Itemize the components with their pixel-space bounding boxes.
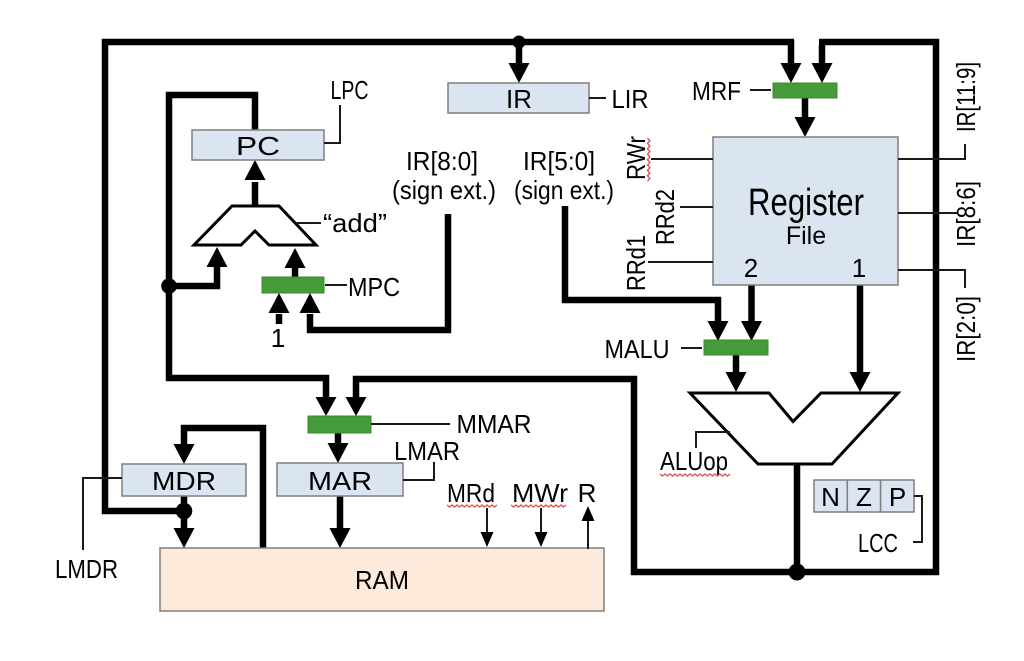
svg-text:RAM: RAM <box>355 565 409 595</box>
node: junction MDR output and left bus <box>176 503 193 520</box>
svg-text:R: R <box>578 478 597 508</box>
svg-text:IR: IR <box>506 84 532 114</box>
wire: MRF right input from right bus (arrow) <box>812 45 833 83</box>
wire: bus to IR register (arrow) <box>509 44 530 83</box>
mux MMAR (green) <box>308 416 371 433</box>
svg-text:MMAR: MMAR <box>457 409 532 439</box>
svg-text:IR[2:0]: IR[2:0] <box>951 296 981 362</box>
node: junction of ALU output and bottom bus <box>789 564 806 581</box>
register PC <box>192 130 324 161</box>
svg-text:RRd2: RRd2 <box>650 189 680 245</box>
svg-text:RRd1: RRd1 <box>621 235 651 291</box>
label "add" with connector <box>296 208 387 238</box>
label LCC with connector <box>858 496 922 558</box>
mux: add-mux trapezoid with notch <box>194 206 316 245</box>
wire: MRF output into register file (arrow) <box>795 97 816 137</box>
status flags N Z P <box>814 480 914 512</box>
svg-text:ALUop: ALUop <box>660 446 728 476</box>
label RWr (rotated) with red squiggle and connector <box>621 136 713 181</box>
wire: add-mux output into PC (arrow) <box>245 160 266 208</box>
svg-text:MRd: MRd <box>447 478 495 508</box>
svg-text:MAR: MAR <box>308 466 372 496</box>
svg-text:LMAR: LMAR <box>394 436 460 466</box>
wire: MALU output into ALU (arrow) <box>726 354 747 392</box>
label MMAR with connector <box>371 409 532 439</box>
svg-text:File: File <box>786 222 826 250</box>
wire: MDR output into RAM (arrow) <box>174 495 195 548</box>
node: bus junction above IR <box>513 36 526 49</box>
svg-text:“add”: “add” <box>323 208 387 238</box>
wire: MRd control into RAM (thin arrow) <box>481 508 494 547</box>
label MWr with red squiggle <box>511 478 568 508</box>
label LPC with connector <box>324 75 369 143</box>
wire: IR[5:0] sign-extended into MALU left input (arrow) <box>565 206 729 341</box>
svg-text:P: P <box>889 482 906 512</box>
label LMDR with connector <box>55 478 122 584</box>
wire: MMAR output into MAR (arrow) <box>328 432 349 463</box>
svg-text:Register: Register <box>748 182 864 224</box>
wire: bus into MRF left input (arrow) <box>781 40 802 83</box>
label RRd1 with connector <box>621 235 713 291</box>
svg-text:(sign ext.): (sign ext.) <box>514 175 614 205</box>
register file box <box>713 137 898 285</box>
wire: IR[8:0] sign-extended into MPC right input (arrow) <box>300 214 449 330</box>
svg-text:IR[11:9]: IR[11:9] <box>951 62 981 132</box>
label MRF with connector <box>692 76 771 106</box>
svg-text:IR[8:6]: IR[8:6] <box>951 181 981 247</box>
mux MALU (green) <box>704 340 768 355</box>
svg-text:MPC: MPC <box>348 272 400 302</box>
svg-text:LCC: LCC <box>858 528 898 558</box>
svg-text:IR[8:0]: IR[8:0] <box>406 146 478 176</box>
mux MPC (green) <box>262 277 324 293</box>
label LIR with connector <box>589 84 649 114</box>
svg-text:IR[5:0]: IR[5:0] <box>523 146 595 176</box>
wire: junction to add-mux left input (arrow) <box>169 247 228 286</box>
wire: RAM output loop into MDR (arrow) <box>174 428 264 550</box>
label ALUop with connector and red squiggle <box>660 432 730 476</box>
label LMAR with connector <box>394 436 460 480</box>
label IR[5:0] (sign ext.) <box>514 146 614 205</box>
label RRd2 with connector <box>650 189 713 245</box>
wire: MAR output into RAM (arrow) <box>330 495 351 548</box>
svg-text:MRF: MRF <box>692 76 741 106</box>
node: junction on PC loop <box>161 278 177 294</box>
svg-text:2: 2 <box>744 253 758 283</box>
label MPC with connector <box>325 272 400 302</box>
svg-text:LMDR: LMDR <box>55 554 118 584</box>
wire: register file to IR[2:0] (elbow) <box>898 270 965 288</box>
svg-text:Z: Z <box>856 482 872 512</box>
memory RAM box <box>160 548 604 611</box>
mux MRF (green) <box>773 83 837 98</box>
svg-text:1: 1 <box>852 253 866 283</box>
svg-text:MALU: MALU <box>605 334 670 364</box>
register MAR <box>277 463 403 496</box>
svg-text:MWr: MWr <box>512 478 568 508</box>
wire: register file to IR[8:6] <box>898 212 958 214</box>
wire: bus riser to MMAR right input (arrow) <box>346 379 635 575</box>
wire: R status from RAM (thin arrow up) <box>582 506 595 549</box>
wire: register file output to IR[11:9] (elbow) <box>898 144 965 159</box>
svg-text:LPC: LPC <box>331 75 369 105</box>
svg-text:MDR: MDR <box>152 466 216 496</box>
svg-text:1: 1 <box>271 323 285 353</box>
register MDR <box>122 464 246 496</box>
wire: PC output loop down to MMAR left input (arrow) <box>169 95 337 416</box>
svg-text:LIR: LIR <box>612 84 649 114</box>
wire: top-right bus, right bus and bottom bus <box>631 42 936 572</box>
label MALU with connector <box>605 334 703 364</box>
wire: MWr control into RAM (thin arrow) <box>535 508 548 547</box>
wire: register file port 2 into MALU right input (arrow) <box>741 285 762 341</box>
svg-text:PC: PC <box>236 131 280 161</box>
wire: constant 1 into MPC (arrow) <box>269 293 290 324</box>
wire: MPC output into add-mux right input (arrow) <box>285 248 306 279</box>
register IR <box>448 83 589 114</box>
ALU shape <box>690 393 898 464</box>
label MRd with red squiggle <box>447 478 497 508</box>
wire: top bus, left bus, and run to MDR junction <box>105 42 794 511</box>
svg-text:N: N <box>821 482 840 512</box>
wire: register file port 1 into ALU (arrow) <box>850 285 871 392</box>
svg-text:RWr: RWr <box>621 136 651 180</box>
svg-text:(sign ext.): (sign ext.) <box>392 175 496 205</box>
label IR[8:0] (sign ext.) <box>392 146 496 205</box>
wire: ALU output down to bottom bus <box>794 461 801 574</box>
